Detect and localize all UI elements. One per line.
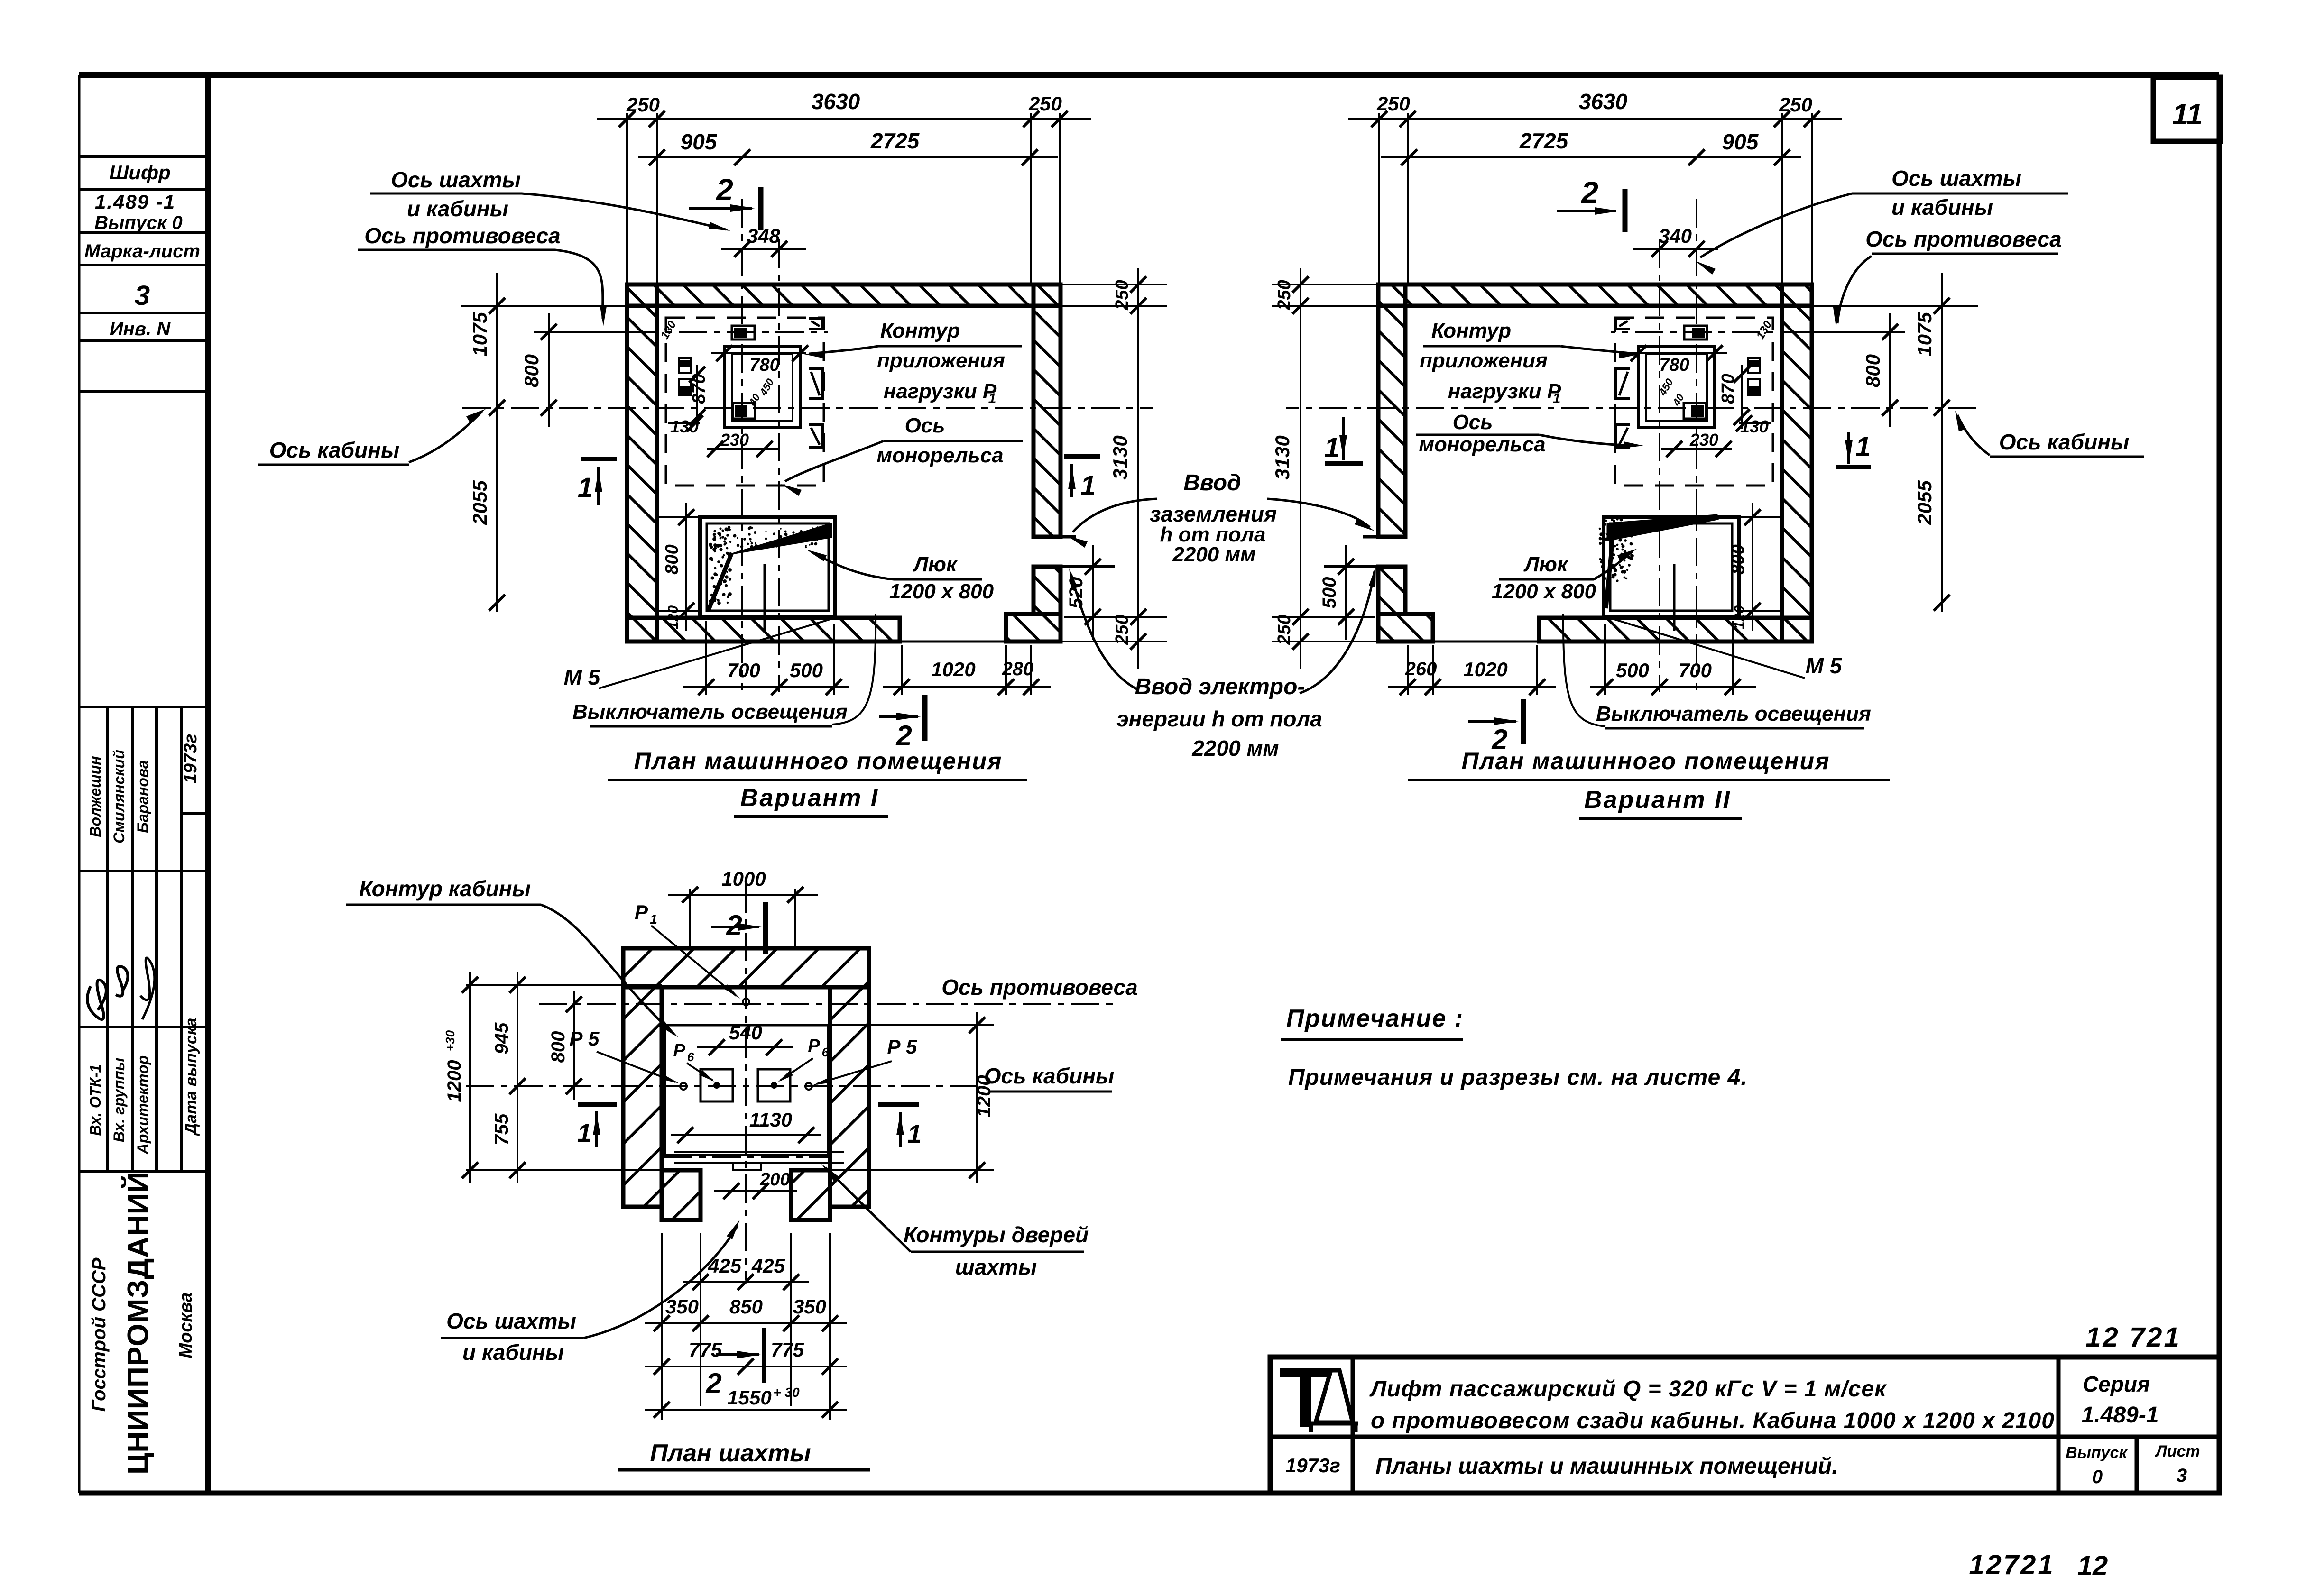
VarI machine base rect	[724, 347, 800, 428]
svg-text:Вх. ОТК-1: Вх. ОТК-1	[87, 1064, 104, 1136]
svg-text:800: 800	[1728, 544, 1748, 574]
svg-text:2200 мм: 2200 мм	[1191, 736, 1279, 761]
svg-text:6: 6	[687, 1050, 694, 1064]
VarII dim 1020/280	[1388, 686, 1556, 688]
svg-text:Ось кабины: Ось кабины	[1999, 430, 2130, 454]
svg-text:Контур: Контур	[1431, 319, 1511, 342]
svg-text:Р 5: Р 5	[887, 1036, 917, 1058]
svg-text:Ось шахты: Ось шахты	[391, 167, 521, 192]
svg-text:о противовесом сзади кабины: о противовесом сзади кабины. Кабина 1000…	[1371, 1408, 2055, 1433]
svg-text:780: 780	[1659, 355, 1689, 375]
svg-text:приложения: приложения	[1420, 349, 1548, 372]
VarII right dim extension lines	[1272, 284, 1378, 285]
svg-text:230: 230	[1689, 430, 1718, 449]
VarII door threshold line	[1433, 641, 1539, 643]
svg-text:Дата выпуска: Дата выпуска	[182, 1018, 200, 1137]
VarI left wall	[627, 284, 657, 642]
svg-text:350: 350	[665, 1295, 699, 1318]
svg-text:1973г: 1973г	[181, 734, 201, 784]
svg-text:нагрузки Р: нагрузки Р	[884, 380, 997, 403]
sheet number box 11	[2153, 77, 2220, 141]
shaft dim 540	[697, 1046, 793, 1048]
shaft left dims	[469, 972, 471, 1183]
VarII door side wall piece	[1378, 614, 1433, 642]
svg-text:энергии h от пола: энергии h от пола	[1116, 706, 1322, 731]
svg-text:500: 500	[1319, 577, 1340, 609]
svg-text:1: 1	[577, 1119, 591, 1147]
svg-text:1: 1	[988, 391, 996, 406]
shaft left wall	[623, 987, 662, 1207]
svg-text:1020: 1020	[1463, 658, 1507, 680]
svg-text:Примечание :: Примечание :	[1286, 1005, 1464, 1032]
VarI dim row 250/3630/250	[597, 118, 1091, 120]
svg-text:250: 250	[1274, 615, 1294, 645]
svg-text:250: 250	[1112, 615, 1132, 645]
VarII right corner brackets	[1616, 318, 1630, 329]
VarI lyuk dims 800/120	[685, 503, 687, 631]
shaft door contour lines	[674, 1151, 844, 1153]
svg-text:Лифт пассажирский Q = 32: Лифт пассажирский Q = 320 кГс V = 1 м/се…	[1369, 1376, 1887, 1402]
svg-text:120: 120	[665, 605, 681, 629]
svg-text:540: 540	[729, 1021, 762, 1044]
svg-text:Ось шахты: Ось шахты	[1891, 166, 2021, 191]
svg-text:Р: Р	[673, 1041, 685, 1061]
svg-text:1: 1	[578, 472, 593, 503]
svg-text:Вариант I: Вариант I	[740, 784, 879, 812]
svg-text:Ось: Ось	[905, 414, 945, 437]
VarII dim 700/500	[1590, 686, 1756, 688]
svg-text:Госстрой СССР: Госстрой СССР	[89, 1257, 110, 1412]
svg-text:Выключатель освещения: Выключатель освещения	[1596, 702, 1871, 725]
svg-text:3: 3	[2177, 1465, 2187, 1486]
svg-text:+ 30: + 30	[773, 1385, 800, 1400]
svg-text:монорельса: монорельса	[876, 444, 1003, 467]
svg-text:Ось шахты: Ось шахты	[446, 1309, 576, 1333]
svg-text:280: 280	[1002, 659, 1034, 679]
svg-text:Ось противовеса: Ось противовеса	[364, 223, 560, 248]
VarII top wall	[1378, 284, 1812, 306]
svg-text:Люк: Люк	[913, 553, 958, 576]
svg-text:3130: 3130	[1271, 435, 1293, 479]
VarII dim 1075/2055	[1941, 273, 1943, 612]
svg-text:1: 1	[907, 1120, 922, 1148]
left title column rows	[79, 155, 208, 158]
VarII section mark 1 outer	[1836, 465, 1871, 469]
svg-text:1: 1	[1324, 432, 1339, 463]
svg-text:1: 1	[1080, 470, 1096, 501]
svg-text:500: 500	[1616, 659, 1649, 681]
shaft dim extensions	[466, 984, 662, 986]
svg-text:Выключатель освещения: Выключатель освещения	[572, 700, 848, 724]
svg-text:Планы шахты и машинных: Планы шахты и машинных помещений.	[1375, 1454, 1838, 1479]
VarII bottom wall	[1539, 618, 1812, 642]
VarII machine bottom block	[1684, 403, 1706, 419]
svg-text:Инв. N: Инв. N	[110, 319, 171, 339]
svg-text:Контуры дверей: Контуры дверей	[904, 1222, 1089, 1247]
shaft dim 200	[714, 1190, 797, 1192]
VarI cab horizontal axis	[462, 407, 1153, 409]
svg-text:1973г: 1973г	[1285, 1454, 1340, 1477]
VarII machine base rect	[1639, 347, 1715, 428]
svg-text:Смилянский: Смилянский	[111, 750, 128, 844]
VarI dim 250/3130/250 stack	[1137, 268, 1139, 669]
VarI dim 520	[1092, 545, 1094, 640]
svg-text:800: 800	[662, 544, 682, 574]
VarI small dim lines inside	[711, 352, 806, 354]
VarI machine bottom block	[733, 403, 755, 419]
VarI dim 1075/2055	[496, 273, 498, 612]
VarII dim 800	[1889, 313, 1891, 427]
VarI section mark 1 outer	[581, 457, 617, 461]
VarII right wall lower	[1378, 567, 1405, 614]
VarII dim 348	[1633, 248, 1718, 250]
VarII dim row 905/2725	[1381, 156, 1801, 158]
svg-text:монорельса: монорельса	[1419, 433, 1545, 456]
svg-text:Примечания и разрезы: Примечания и разрезы см. на листе 4.	[1288, 1065, 1748, 1090]
svg-text:2725: 2725	[1519, 128, 1569, 153]
svg-text:Вх. группы: Вх. группы	[111, 1058, 128, 1142]
svg-text:800: 800	[548, 1031, 569, 1063]
VarII left wall	[1782, 284, 1812, 642]
svg-text:1550: 1550	[727, 1386, 771, 1409]
shaft top wall	[623, 948, 869, 987]
svg-text:План машинного пом: План машинного помещения	[634, 748, 1003, 774]
svg-text:11: 11	[2172, 98, 2203, 131]
VarI load contour dashed rect	[666, 318, 824, 486]
VarI dim row 905/2725	[638, 156, 1058, 158]
svg-text:Ввод: Ввод	[1183, 470, 1241, 495]
shaft axes	[745, 884, 747, 1280]
svg-text:850: 850	[729, 1295, 763, 1318]
VarI hatch axis stub	[764, 564, 766, 631]
svg-text:Р 5: Р 5	[569, 1027, 600, 1050]
svg-text:Серия: Серия	[2083, 1372, 2150, 1396]
svg-text:1075: 1075	[1913, 312, 1936, 357]
svg-text:Баранова: Баранова	[134, 760, 151, 833]
svg-text:Москва: Москва	[176, 1293, 196, 1358]
VarII bottom dim extensions	[1732, 621, 1734, 695]
VarII shaft-cab vertical axis	[1696, 199, 1697, 690]
VarII left equipment blocks	[1748, 358, 1760, 373]
svg-text:Люк: Люк	[1523, 553, 1569, 576]
svg-text:План шахты: План шахты	[650, 1440, 811, 1467]
VarI right dim extension lines	[1061, 284, 1167, 285]
svg-text:700: 700	[727, 659, 760, 681]
VarI dim 800	[548, 313, 550, 427]
shaft bottom wall right jamb	[791, 1170, 830, 1220]
svg-text:0: 0	[2092, 1467, 2103, 1487]
VarI section mark 2 bottom	[879, 715, 918, 718]
svg-text:Контур кабины: Контур кабины	[359, 876, 531, 901]
svg-text:Р: Р	[635, 901, 648, 923]
signatures squiggles	[87, 980, 106, 1019]
shaft dim 350/850/350	[645, 1322, 847, 1324]
VarI section mark 1 inner	[1064, 454, 1100, 459]
svg-text:шахты: шахты	[955, 1255, 1037, 1279]
svg-text:755: 755	[491, 1113, 512, 1145]
VarII dim row 250/3630/250	[1348, 118, 1842, 120]
svg-text:Марка-лист: Марка-лист	[84, 241, 200, 262]
svg-text:120: 120	[1732, 605, 1747, 629]
svg-text:и кабины: и кабины	[407, 196, 508, 221]
svg-text:2055: 2055	[1913, 480, 1936, 525]
VarI left equipment blocks	[679, 358, 691, 373]
svg-text:Ось кабины: Ось кабины	[984, 1064, 1115, 1088]
svg-text:Шифр: Шифр	[109, 161, 171, 183]
svg-text:Ось противовеса: Ось противовеса	[1865, 227, 2061, 251]
VarI monorail vertical axis	[778, 239, 780, 692]
svg-text:2: 2	[705, 1367, 721, 1399]
svg-text:250: 250	[1028, 92, 1062, 115]
svg-text:M 5: M 5	[564, 665, 601, 689]
VarI dim 1020/280	[883, 686, 1051, 688]
svg-text:800: 800	[520, 354, 543, 387]
VarI bottom wall	[627, 618, 900, 642]
shaft right dim 1200	[976, 1012, 978, 1183]
left column sub-dividers	[106, 707, 109, 1172]
svg-text:ЦНИИПРОМЗДАНИЙ: ЦНИИПРОМЗДАНИЙ	[121, 1171, 155, 1475]
cab contour	[665, 1025, 828, 1155]
svg-text:3630: 3630	[812, 89, 860, 114]
VarI machine top block	[732, 326, 755, 339]
svg-text:1130: 1130	[749, 1109, 792, 1131]
svg-text:230: 230	[720, 430, 749, 449]
svg-text:1200 х 800: 1200 х 800	[1492, 580, 1596, 603]
shaft section marks 1	[578, 1102, 617, 1107]
svg-text:3630: 3630	[1579, 89, 1628, 114]
svg-text:План машинного помещения: План машинного помещения	[1462, 748, 1830, 774]
shaft dim 425/425	[683, 1281, 809, 1283]
VarII lyuk dims 800/120	[1752, 503, 1753, 631]
VarI bottom dim extensions	[705, 621, 707, 695]
VarII section mark 1 inner	[1325, 461, 1363, 466]
svg-text:1: 1	[1855, 431, 1871, 462]
svg-text:12 721: 12 721	[2085, 1322, 2181, 1353]
VarI top wall	[627, 284, 1061, 306]
svg-text:1: 1	[650, 912, 657, 926]
svg-text:250: 250	[626, 93, 660, 116]
svg-text:приложения: приложения	[877, 349, 1005, 372]
svg-text:12721: 12721	[1969, 1550, 2055, 1580]
VarI side extension lines	[461, 305, 627, 307]
shaft dim 1550+30	[645, 1409, 847, 1411]
VarI dim 348	[721, 248, 806, 250]
guide shoe squares	[701, 1069, 733, 1101]
VarII hatch axis stub	[1673, 564, 1676, 631]
svg-text:250: 250	[1112, 280, 1132, 310]
VarII cab horizontal axis	[1286, 407, 1976, 409]
svg-text:Выпуск: Выпуск	[2066, 1444, 2128, 1462]
svg-text:Ось противовеса: Ось противовеса	[941, 975, 1137, 1000]
svg-text:1200: 1200	[444, 1060, 465, 1102]
svg-text:425: 425	[751, 1255, 785, 1277]
svg-text:2055: 2055	[469, 480, 491, 525]
svg-text:Архитектор: Архитектор	[134, 1055, 151, 1155]
svg-text:Выпуск 0: Выпуск 0	[94, 212, 183, 233]
svg-text:250: 250	[1779, 93, 1812, 116]
load point circles	[743, 999, 749, 1005]
svg-text:1020: 1020	[931, 658, 975, 680]
VarI door threshold line	[900, 641, 1006, 643]
svg-text:700: 700	[1679, 659, 1712, 681]
svg-text:Ось кабины: Ось кабины	[269, 438, 400, 462]
TD logo	[1281, 1368, 1331, 1426]
VarI dim 700/500	[683, 686, 849, 688]
svg-text:Волжешин: Волжешин	[87, 756, 104, 837]
VarII top dim extension lines	[1811, 113, 1813, 284]
shaft right wall	[830, 987, 869, 1207]
svg-text:348: 348	[747, 225, 781, 247]
svg-text:6: 6	[822, 1045, 829, 1059]
svg-text:Лист: Лист	[2154, 1442, 2200, 1460]
svg-text:350: 350	[793, 1295, 826, 1318]
svg-text:Р: Р	[808, 1036, 820, 1056]
VarI right corner brackets	[809, 318, 823, 329]
svg-text:1075: 1075	[469, 312, 491, 357]
VarII right wall upper	[1378, 284, 1405, 537]
VarII floor hatch lyuk	[1604, 517, 1739, 617]
VarII counterweight horizontal axis	[1611, 331, 1905, 333]
svg-text:1200 х 800: 1200 х 800	[889, 580, 994, 603]
svg-text:Ось: Ось	[1453, 411, 1493, 434]
svg-text:2200 мм: 2200 мм	[1172, 543, 1255, 566]
svg-text:130: 130	[1740, 417, 1769, 436]
svg-text:1.489-1: 1.489-1	[2082, 1403, 2159, 1428]
svg-text:2: 2	[895, 720, 912, 752]
VarII section mark 2 bottom	[1468, 720, 1516, 723]
svg-text:12: 12	[2077, 1550, 2108, 1581]
svg-text:905: 905	[681, 129, 718, 154]
VarII side extension lines	[1812, 305, 1978, 307]
VarII dim 250/3130/250 stack	[1300, 268, 1301, 669]
svg-text:340: 340	[1659, 225, 1692, 247]
VarI counterweight horizontal axis	[534, 331, 828, 333]
title block frame	[1270, 1357, 2219, 1493]
shaft dim 1000	[668, 894, 818, 896]
VarII monorail vertical axis	[1659, 239, 1660, 692]
svg-text:Вариант II: Вариант II	[1584, 786, 1731, 814]
svg-text:2: 2	[1581, 175, 1598, 210]
svg-text:775: 775	[771, 1339, 804, 1361]
svg-text:нагрузки Р: нагрузки Р	[1448, 380, 1561, 403]
svg-text:260: 260	[1405, 659, 1437, 679]
svg-text:905: 905	[1722, 129, 1759, 154]
svg-text:и кабины: и кабины	[462, 1340, 564, 1365]
svg-text:200: 200	[759, 1170, 790, 1190]
svg-text:Контур: Контур	[880, 319, 960, 342]
VarI top dim extension lines	[626, 113, 628, 284]
svg-text:и кабины: и кабины	[1891, 195, 1993, 220]
VarII load contour dashed rect	[1615, 318, 1773, 486]
svg-text:250: 250	[1274, 280, 1294, 310]
svg-text:1.489 -1: 1.489 -1	[95, 191, 175, 213]
svg-text:2725: 2725	[870, 128, 920, 153]
sheet frame	[79, 72, 2219, 78]
svg-text:3: 3	[135, 280, 150, 311]
VarI floor hatch lyuk	[700, 517, 835, 617]
VarI shaft-cab vertical axis	[741, 199, 743, 690]
svg-text:1000: 1000	[721, 868, 766, 890]
svg-text:800: 800	[1862, 354, 1884, 387]
VarII dim 520	[1345, 545, 1347, 640]
svg-text:500: 500	[790, 659, 823, 681]
svg-text:775: 775	[689, 1339, 722, 1361]
shaft bottom wall left jamb	[662, 1170, 701, 1220]
svg-text:870: 870	[1718, 374, 1738, 404]
svg-text:3130: 3130	[1109, 435, 1131, 479]
svg-text:2: 2	[716, 173, 733, 207]
svg-text:780: 780	[749, 355, 779, 375]
svg-text:М 5: М 5	[1806, 653, 1843, 678]
svg-text:945: 945	[491, 1022, 512, 1054]
shaft dim 1130	[671, 1134, 821, 1136]
VarI right wall upper	[1033, 284, 1061, 537]
shaft dim 775/775	[645, 1366, 847, 1367]
VarI right wall lower	[1033, 567, 1061, 614]
svg-text:Ввод электро-: Ввод электро-	[1135, 674, 1305, 699]
VarI door side wall piece	[1006, 614, 1061, 642]
VarII small dim lines inside	[1633, 352, 1727, 354]
svg-text:250: 250	[1376, 92, 1410, 115]
svg-text:1: 1	[1553, 391, 1561, 406]
VarII machine top block	[1684, 326, 1707, 339]
svg-text:+30: +30	[443, 1030, 457, 1051]
